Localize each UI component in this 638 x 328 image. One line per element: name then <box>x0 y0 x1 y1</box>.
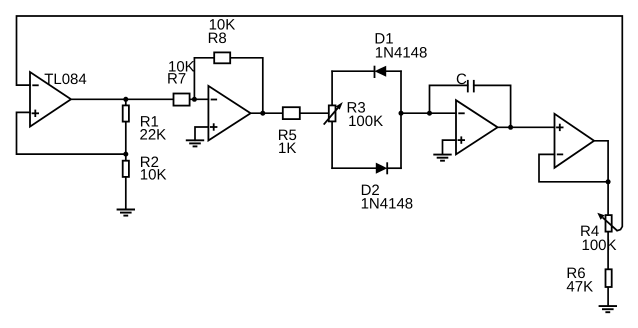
svg-text:1N4148: 1N4148 <box>361 195 414 212</box>
wire R2 top stub <box>125 154 127 161</box>
potentiometer R3 <box>324 102 343 125</box>
node U1B output junction <box>260 111 265 116</box>
node R7/R8 junction <box>192 97 197 102</box>
svg-text:47K: 47K <box>566 278 593 295</box>
wire diode loop bottom rail right of D2 <box>387 167 401 169</box>
wire diode loop left rail upper <box>331 71 333 105</box>
resistor R7 <box>174 94 190 106</box>
node U1D output junction <box>606 179 611 184</box>
wire R6 to ground <box>607 287 609 306</box>
op-amp U1A <box>30 72 71 127</box>
wire R7 to U1B inverting input <box>190 98 209 100</box>
svg-text:1K: 1K <box>278 140 296 157</box>
svg-text:100K: 100K <box>582 237 617 254</box>
wire capacitor feedback branch left <box>430 85 468 113</box>
wire R8 feedback branch <box>194 58 214 100</box>
node R1 top junction <box>123 97 128 102</box>
wire top feedback rail from U1A inverting input <box>17 16 623 231</box>
ground below R2 <box>117 210 135 216</box>
svg-text:22K: 22K <box>140 127 167 144</box>
wire U1A noninverting input to R1/R2 node <box>17 112 126 154</box>
wire R2 to ground <box>125 177 127 210</box>
svg-text:TL084: TL084 <box>44 71 87 88</box>
wire diode loop top rail left of D1 <box>332 70 374 72</box>
wire R5 to R3 wiper <box>300 112 329 114</box>
node R1/R2 junction <box>123 152 128 157</box>
ground at U1C noninverting input <box>433 155 451 161</box>
resistor R5 <box>283 107 300 119</box>
svg-text:C: C <box>456 71 467 88</box>
resistor R8 <box>214 52 230 63</box>
wire U1B output to R5 <box>251 112 283 114</box>
wire R1 top stub <box>125 99 127 105</box>
wire U1D inverting input feedback <box>539 154 608 181</box>
wire R4 to R6 <box>607 232 609 270</box>
wire U1B noninverting input to ground <box>195 127 208 140</box>
ground at U1B noninverting input <box>186 140 204 146</box>
wire R8 to U1B output node <box>230 58 263 113</box>
svg-text:100K: 100K <box>348 113 383 130</box>
svg-text:1N4148: 1N4148 <box>375 45 428 62</box>
capacitor C1 <box>468 80 474 93</box>
svg-text:10K: 10K <box>140 167 167 184</box>
potentiometer R4 <box>597 213 617 232</box>
op-amp U1C <box>456 100 498 154</box>
wire diode loop right rail <box>400 71 402 168</box>
resistor R2 <box>123 161 129 177</box>
resistor R1 <box>123 105 129 121</box>
svg-text:R8: R8 <box>208 30 227 47</box>
node diode loop output junction <box>399 111 404 116</box>
node capacitor branch junction <box>427 111 432 116</box>
ground below R6 <box>599 306 617 312</box>
wire diode loop left rail lower <box>331 121 333 168</box>
diode D1 <box>375 66 387 78</box>
wire capacitor feedback branch right <box>474 85 511 127</box>
wire node to U1C inverting input <box>401 112 456 114</box>
op-amp U1B <box>208 86 250 141</box>
node U1C output junction <box>508 125 513 130</box>
wire U1D output down to R4 <box>594 141 608 215</box>
diode D2 <box>376 162 387 174</box>
svg-text:R7: R7 <box>167 70 186 87</box>
wire R1 bottom to node A <box>125 122 127 155</box>
wire U1C noninverting input to ground <box>443 140 457 154</box>
resistor R6 <box>606 269 612 287</box>
wire diode loop bottom rail left of D2 <box>332 167 376 169</box>
op-amp U1D <box>555 114 595 168</box>
wire diode loop top rail right of D1 <box>386 70 401 72</box>
wire U1A output to R7 <box>71 98 174 100</box>
wire U1C output to U1D noninverting input <box>498 126 555 128</box>
